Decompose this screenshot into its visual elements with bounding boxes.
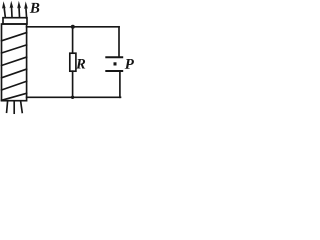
- coil leg left: [7, 101, 8, 112]
- charged particle between plates: [114, 62, 117, 65]
- wire resistor branch upper: [72, 27, 74, 53]
- wire top horizontal: [27, 26, 119, 28]
- label P: [125, 59, 134, 69]
- coil winding turn 1: [2, 33, 27, 41]
- coil winding turn 3: [2, 57, 27, 65]
- coil leg middle: [13, 101, 15, 113]
- label R: [76, 59, 85, 68]
- node junction dot top: [71, 25, 75, 29]
- coil winding turn 2: [2, 45, 27, 53]
- wire resistor branch lower: [72, 71, 74, 97]
- wire bottom horizontal: [27, 96, 121, 98]
- coil winding turn 5: [2, 81, 27, 90]
- capacitor P top plate: [106, 56, 122, 58]
- coil leg right: [21, 101, 23, 112]
- capacitor P bottom plate: [106, 70, 122, 72]
- field arrow 2: [10, 1, 14, 17]
- field arrow 3: [17, 1, 21, 17]
- wire right branch upper: [118, 27, 120, 57]
- resistor R box: [70, 53, 76, 71]
- field arrow 1: [2, 1, 6, 17]
- wire right branch lower: [119, 71, 121, 97]
- coil L top cap: [3, 18, 27, 24]
- label B: [30, 3, 40, 13]
- coil winding turn 6: [2, 93, 27, 100]
- field arrow 4: [24, 1, 28, 18]
- node junction dot bottom: [71, 96, 74, 99]
- coil winding turn 4: [2, 69, 27, 78]
- coil L body: [2, 24, 27, 101]
